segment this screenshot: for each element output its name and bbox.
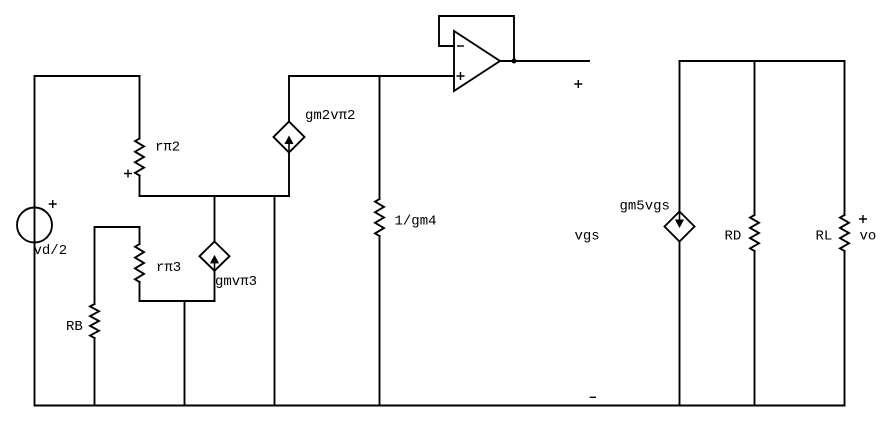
svg-text:gm2vπ2: gm2vπ2 xyxy=(305,108,355,124)
svg-text:1/gm4: 1/gm4 xyxy=(395,214,437,230)
svg-text:RL: RL xyxy=(816,229,833,245)
svg-text:vgs: vgs xyxy=(575,229,600,245)
svg-text:gmvπ3: gmvπ3 xyxy=(215,274,257,290)
svg-text:rπ2: rπ2 xyxy=(155,140,180,156)
svg-text:vd/2: vd/2 xyxy=(34,243,68,259)
svg-text:RD: RD xyxy=(725,229,742,245)
svg-text:rπ3: rπ3 xyxy=(156,260,181,276)
svg-text:vo: vo xyxy=(860,229,877,245)
svg-text:gm5vgs: gm5vgs xyxy=(620,199,670,215)
svg-text:RB: RB xyxy=(66,319,83,335)
